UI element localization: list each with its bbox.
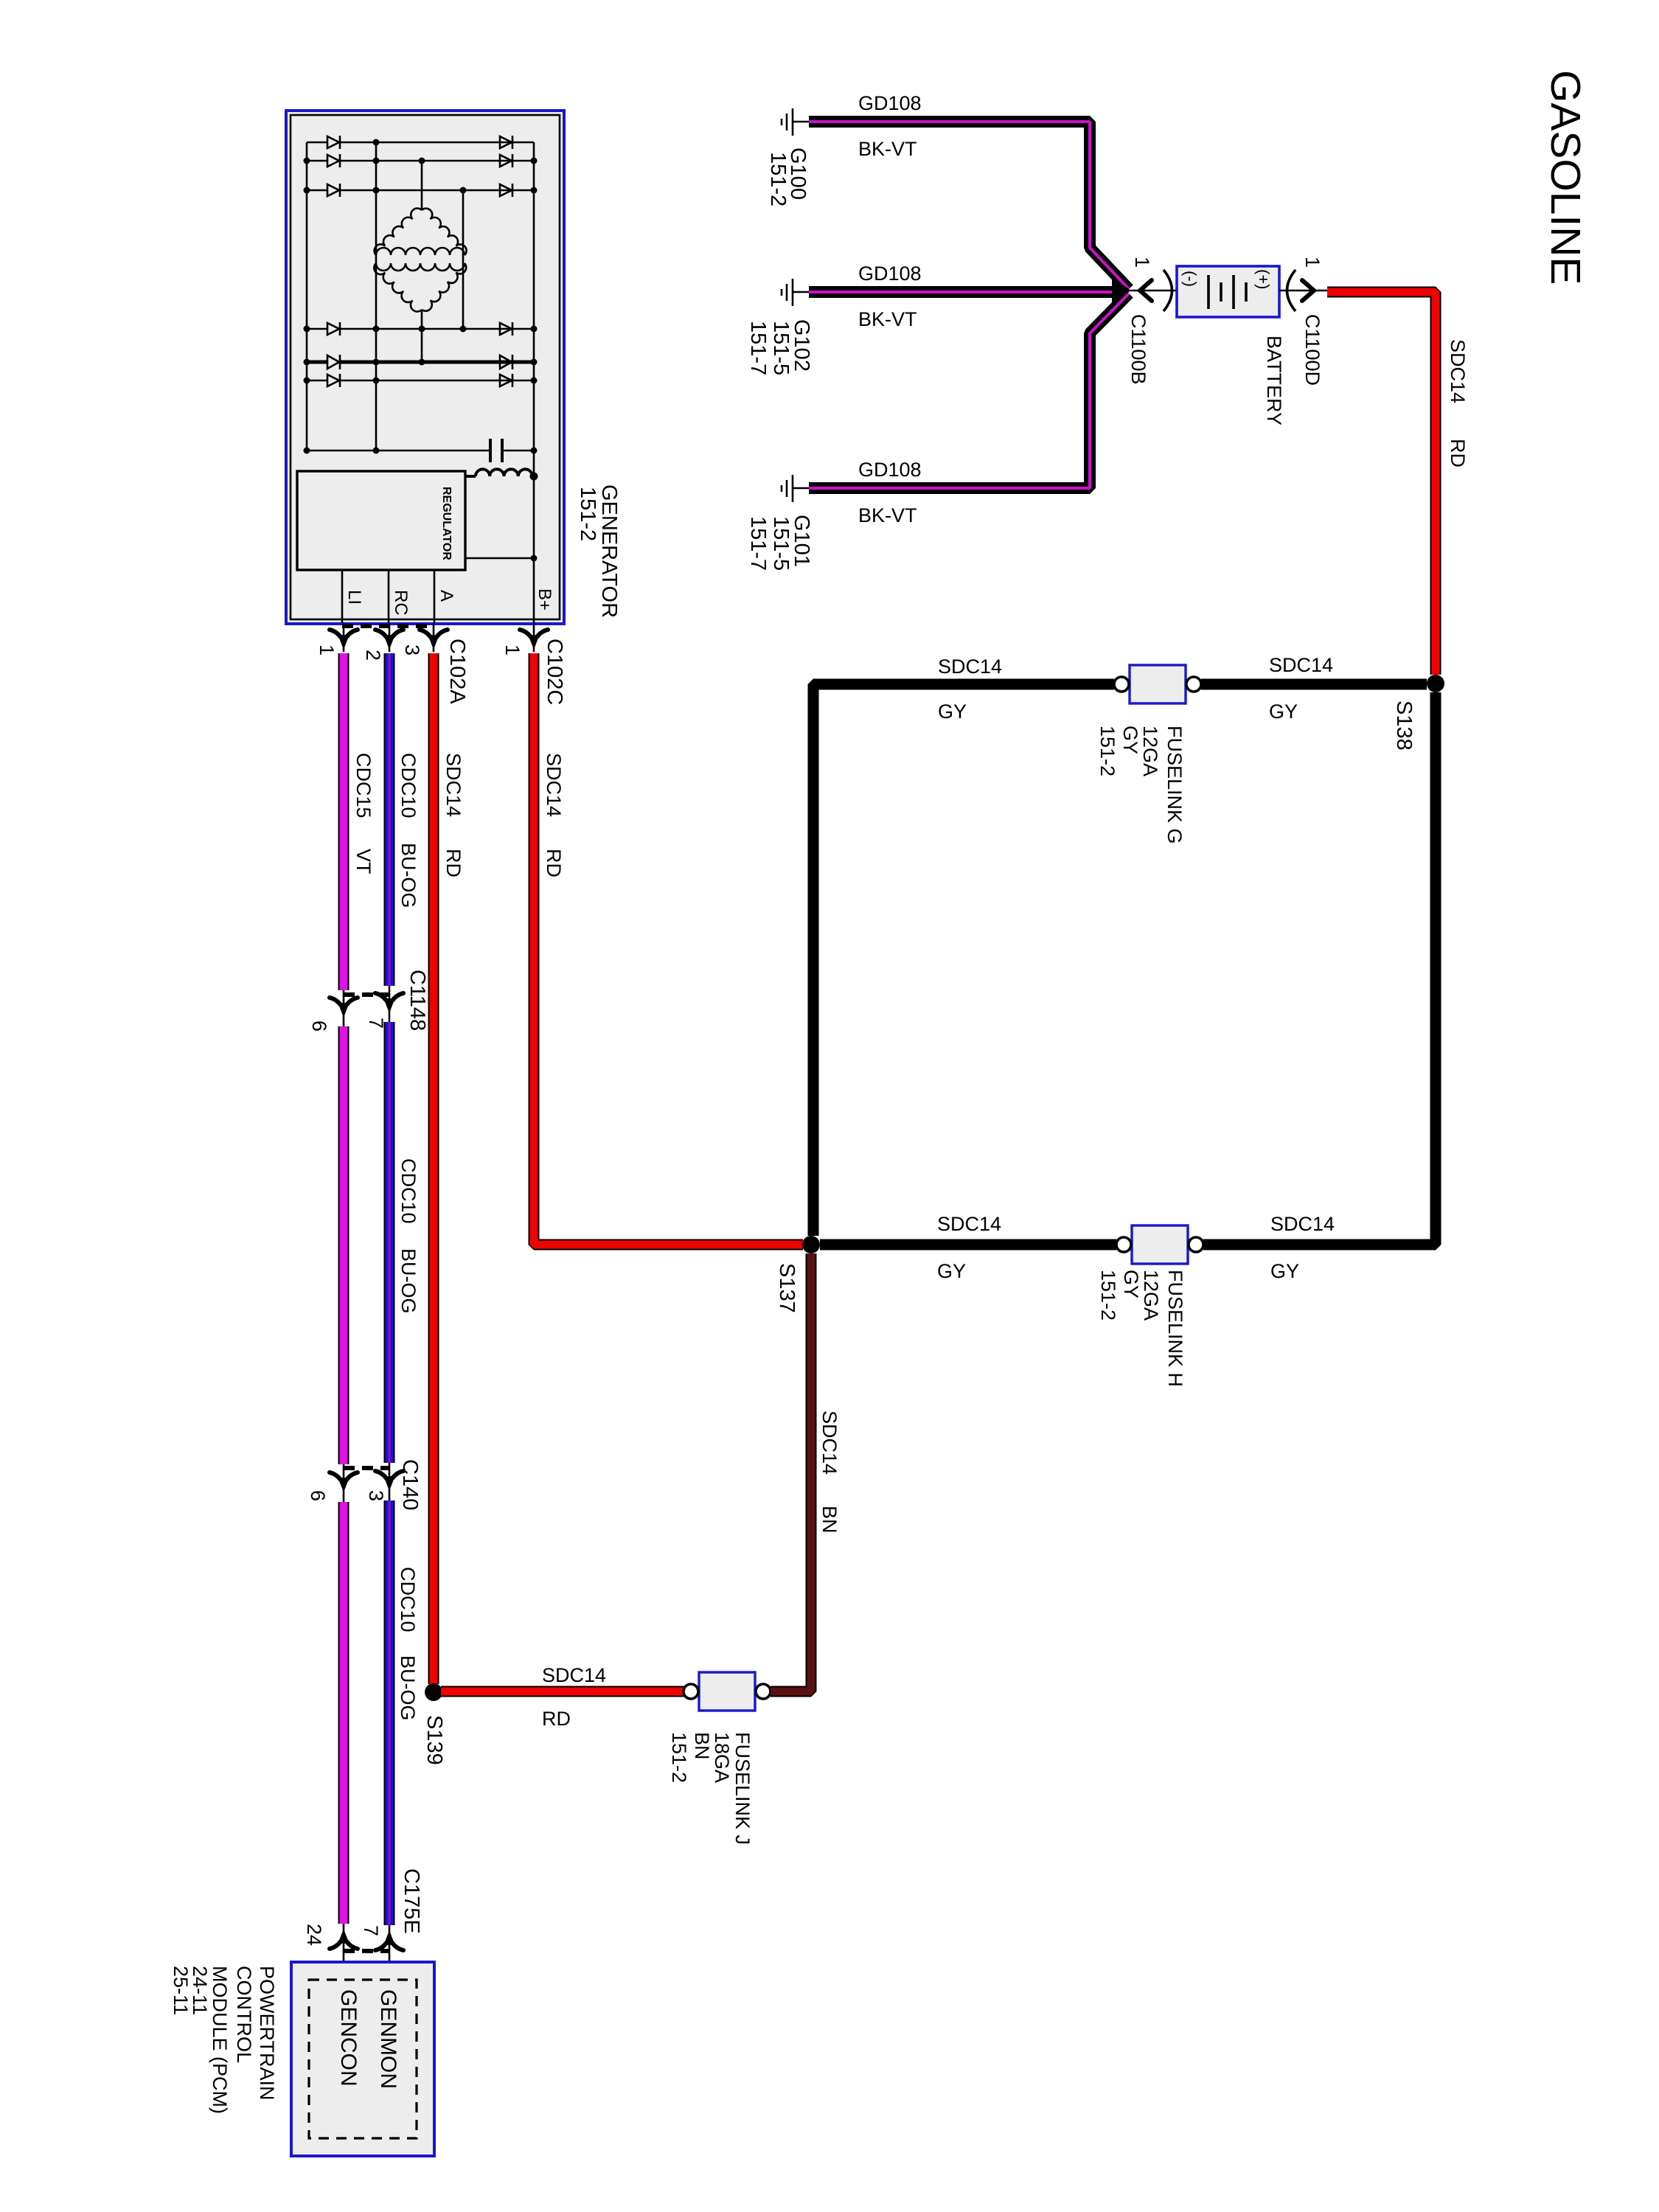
svg-text:GENERATOR: GENERATOR	[597, 484, 621, 618]
junction dots generator	[304, 139, 538, 562]
splice S138	[1427, 675, 1444, 692]
pin LI lead	[341, 570, 344, 623]
svg-text:SDC14: SDC14	[1269, 654, 1333, 676]
svg-text:RD: RD	[1447, 439, 1469, 467]
stator winding delta 1	[375, 209, 467, 255]
svg-text:LI: LI	[344, 590, 364, 605]
ground G101	[782, 475, 809, 502]
svg-text:C1148: C1148	[406, 970, 429, 1031]
svg-text:151-2: 151-2	[766, 152, 790, 206]
ground G102	[782, 279, 809, 306]
svg-text:SDC14: SDC14	[818, 1411, 841, 1475]
svg-text:1: 1	[316, 644, 338, 655]
connector C102 pin 3 arrow	[420, 623, 448, 652]
svg-text:151-2: 151-2	[1097, 1270, 1119, 1321]
connector C140 pin6 arrow	[330, 1464, 358, 1502]
wire GD108 BK-VT (G101)	[809, 293, 1129, 488]
svg-text:(+): (+)	[1254, 269, 1273, 290]
battery cell plates	[1208, 275, 1246, 309]
stator winding delta 2	[374, 263, 466, 312]
stator bus B	[462, 190, 465, 329]
stator feed top	[421, 161, 423, 210]
connector C1100D bracket	[1287, 270, 1296, 311]
svg-text:(-): (-)	[1181, 271, 1200, 287]
connector C175E pin24 arrow	[330, 1924, 358, 1962]
svg-text:GD108: GD108	[858, 92, 922, 114]
field winding inductor	[465, 469, 532, 476]
svg-text:GENCON: GENCON	[336, 1989, 361, 2087]
svg-text:SDC14: SDC14	[542, 1664, 606, 1686]
fuselink J label block	[668, 1732, 754, 1845]
connector C1100D arrow	[1302, 280, 1314, 301]
battery box	[1177, 266, 1279, 317]
svg-text:C102A: C102A	[445, 639, 469, 704]
ground label G100 151-2	[766, 147, 810, 206]
fuselink H	[1116, 1225, 1203, 1264]
svg-text:24: 24	[303, 1924, 325, 1946]
svg-text:RD: RD	[442, 849, 465, 877]
svg-text:C1100D: C1100D	[1301, 314, 1324, 386]
rectifier row 6	[307, 374, 534, 387]
svg-text:CDC10: CDC10	[397, 1158, 420, 1224]
wire CDC10 BU-OG (blue) C1148 to C140	[384, 1022, 395, 1463]
svg-text:151-2: 151-2	[668, 1732, 690, 1783]
wire GD108 BK-VT (G102)	[809, 286, 1121, 298]
node C1100B junction tip	[1112, 277, 1131, 304]
connector C140 pin3 arrow	[375, 1463, 403, 1500]
wire SDC14 RD battery to S138	[1327, 292, 1436, 675]
wire SDC14 RD S139 to fuselink J	[441, 1686, 684, 1697]
generator internal: right bus (B+)	[533, 142, 535, 623]
wire SDC14 GY S137/corner up to fuselink G	[813, 684, 1114, 1236]
connector C1100B link line	[1130, 290, 1177, 292]
svg-text:12GA: 12GA	[1140, 1270, 1162, 1321]
svg-text:GY: GY	[1120, 1270, 1142, 1298]
svg-text:GASOLINE: GASOLINE	[1542, 70, 1589, 285]
generator internal: left bus	[306, 142, 308, 451]
svg-text:SDC14: SDC14	[937, 1213, 1001, 1235]
wire SDC14 RD (red) generator B+ to S137	[534, 653, 803, 1245]
svg-text:6: 6	[307, 1490, 329, 1501]
PCM label block	[170, 1966, 278, 2114]
connector C175E dashed link	[344, 1949, 389, 1953]
svg-text:SDC14: SDC14	[1270, 1213, 1335, 1235]
connector C140 dashed link	[344, 1466, 389, 1470]
svg-text:S139: S139	[422, 1715, 446, 1765]
svg-text:S137: S137	[775, 1263, 799, 1313]
generator label GENERATOR 151-2	[576, 484, 621, 618]
svg-text:151-2: 151-2	[576, 487, 599, 541]
svg-text:151-5: 151-5	[769, 516, 793, 571]
wire CDC10 BU-OG (blue) C140 to PCM	[384, 1500, 395, 1925]
connector C1148 pin7 arrow	[375, 986, 403, 1022]
svg-text:BU-OG: BU-OG	[397, 1655, 419, 1721]
svg-text:GENMON: GENMON	[376, 1989, 400, 2089]
capacitor C (generator suppression)	[490, 439, 502, 462]
svg-text:GY: GY	[937, 1260, 966, 1282]
svg-text:GD108: GD108	[858, 459, 922, 481]
svg-text:3: 3	[401, 644, 423, 655]
regulator lower link to B+ bus	[465, 557, 534, 560]
svg-text:S138: S138	[1392, 700, 1416, 751]
svg-text:BU-OG: BU-OG	[397, 843, 420, 908]
svg-text:151-5: 151-5	[769, 321, 793, 375]
wire CDC10 BU-OG (blue) generator pin2 to C1148	[384, 653, 395, 986]
splice S137	[802, 1236, 820, 1253]
svg-text:CDC15: CDC15	[352, 753, 375, 818]
svg-text:C1100B: C1100B	[1127, 314, 1150, 385]
connector C1148 dashed link	[344, 992, 389, 997]
svg-text:BN: BN	[818, 1506, 841, 1534]
svg-text:C140: C140	[398, 1459, 422, 1510]
fuselink G	[1114, 665, 1201, 703]
svg-text:A: A	[437, 590, 456, 602]
svg-text:1: 1	[501, 644, 524, 655]
connector C1148 pin6 arrow	[330, 990, 358, 1026]
ground label G102 151-5 151-7	[746, 319, 813, 375]
svg-text:VT: VT	[352, 849, 375, 874]
splice S139	[425, 1683, 442, 1701]
connector C102 dashed gang line	[342, 624, 434, 628]
svg-text:GD108: GD108	[858, 262, 922, 285]
svg-text:GY: GY	[1269, 700, 1298, 723]
svg-text:18GA: 18GA	[711, 1732, 733, 1783]
svg-text:2: 2	[362, 650, 384, 661]
svg-text:FUSELINK J: FUSELINK J	[731, 1732, 754, 1845]
svg-text:SDC14: SDC14	[442, 753, 465, 817]
svg-text:GY: GY	[1270, 1260, 1299, 1282]
fuselink G label block	[1096, 726, 1186, 844]
svg-text:1: 1	[1301, 257, 1324, 268]
rectifier row 5 (bold)	[307, 355, 534, 369]
wire CDC15 VT (magenta) generator pin1 to C1148	[338, 653, 349, 990]
connector C1100D link line	[1279, 290, 1327, 292]
connector C102 pin 1 arrow	[330, 623, 358, 652]
svg-text:GY: GY	[938, 700, 967, 723]
pin A lead	[434, 570, 436, 623]
wire SDC14 GY fuselink G to S138	[1201, 679, 1427, 690]
svg-text:C175E: C175E	[400, 1868, 423, 1934]
wire CDC15 VT (magenta) C140 to PCM	[338, 1502, 349, 1924]
bottom bus with capacitor	[307, 450, 534, 452]
PCM inner dashed box	[309, 1980, 417, 2138]
svg-text:CDC10: CDC10	[397, 753, 420, 818]
svg-text:BATTERY: BATTERY	[1263, 335, 1285, 425]
ground label G101 151-5 151-7	[746, 515, 813, 571]
svg-text:151-7: 151-7	[746, 516, 770, 571]
svg-text:POWERTRAIN: POWERTRAIN	[256, 1966, 278, 2101]
generator box (GENERATOR 151-2)	[286, 111, 564, 624]
stator bus A	[375, 142, 378, 451]
svg-text:CDC10: CDC10	[397, 1567, 419, 1632]
svg-text:3: 3	[365, 1490, 387, 1501]
svg-text:C102C: C102C	[543, 639, 566, 705]
regulator box U (REGULATOR)	[297, 471, 465, 570]
svg-text:RD: RD	[542, 1708, 571, 1730]
svg-text:12GA: 12GA	[1139, 726, 1161, 776]
svg-text:SDC14: SDC14	[543, 753, 565, 817]
svg-text:BK-VT: BK-VT	[858, 308, 917, 330]
connector C102 pin 2 arrow	[375, 623, 403, 652]
fuselink J	[684, 1672, 771, 1711]
rectifier row 1	[307, 136, 534, 149]
svg-text:BK-VT: BK-VT	[858, 504, 917, 526]
wire SDC14 GY S137 to fuselink H	[820, 1239, 1116, 1251]
svg-text:151-2: 151-2	[1096, 726, 1119, 776]
connector C102 B+ arrow	[520, 623, 548, 652]
svg-text:BK-VT: BK-VT	[858, 138, 917, 160]
svg-text:GY: GY	[1119, 726, 1141, 754]
PCM box (POWERTRAIN CONTROL MODULE)	[291, 1962, 434, 2156]
svg-text:RD: RD	[543, 849, 565, 877]
connector C1100B arrow	[1140, 280, 1152, 301]
rectifier row 2	[307, 154, 534, 167]
svg-text:SDC14: SDC14	[1447, 339, 1469, 403]
connector C1100B bracket	[1164, 270, 1172, 311]
wire SDC14 RD (red) generator pin3 to S139	[428, 653, 439, 1684]
svg-text:151-7: 151-7	[746, 321, 770, 375]
wire GD108 BK-VT (G100)	[809, 122, 1129, 289]
fuselink H label block	[1097, 1270, 1186, 1387]
svg-text:6: 6	[308, 1020, 330, 1032]
wire CDC15 VT (magenta) C1148 to C140	[338, 1026, 349, 1464]
stator feed bottom	[421, 310, 423, 362]
svg-text:CONTROL: CONTROL	[233, 1966, 255, 2063]
svg-text:1: 1	[1131, 257, 1153, 268]
pin RC lead	[388, 570, 390, 623]
svg-text:MODULE (PCM): MODULE (PCM)	[209, 1966, 231, 2114]
svg-text:FUSELINK H: FUSELINK H	[1164, 1270, 1186, 1387]
svg-text:BU-OG: BU-OG	[397, 1248, 420, 1314]
svg-text:FUSELINK G: FUSELINK G	[1164, 726, 1186, 844]
connector C175E pin7 arrow	[375, 1925, 403, 1980]
svg-text:RC: RC	[391, 590, 411, 616]
ground G100	[782, 108, 809, 136]
svg-text:SDC14: SDC14	[938, 655, 1002, 678]
svg-text:25-11: 25-11	[170, 1966, 192, 2015]
svg-text:REGULATOR: REGULATOR	[440, 487, 453, 560]
svg-text:7: 7	[360, 1925, 382, 1936]
svg-text:B+: B+	[535, 588, 554, 611]
wire SDC14 GY fuselink H to S138	[1203, 692, 1436, 1245]
svg-text:BN: BN	[691, 1732, 713, 1760]
rectifier row 3	[307, 184, 534, 197]
rectifier row 4	[307, 322, 534, 335]
wire SDC14 BN fuselink J to S137	[771, 1253, 811, 1691]
